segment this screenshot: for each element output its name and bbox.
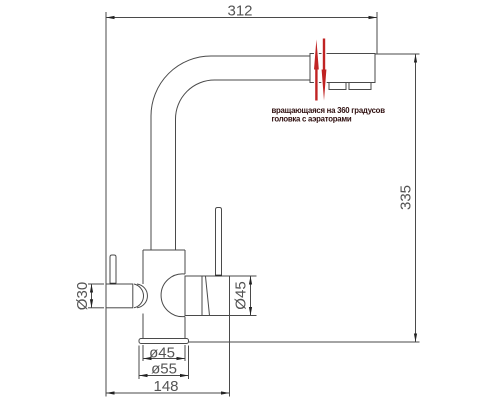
svg-text:312: 312 xyxy=(227,3,252,20)
svg-text:Ø45: Ø45 xyxy=(233,281,250,309)
svg-text:Ø30: Ø30 xyxy=(74,282,91,310)
svg-text:335: 335 xyxy=(398,185,415,210)
svg-text:ø55: ø55 xyxy=(151,361,177,378)
svg-text:головка с аэраторами: головка с аэраторами xyxy=(272,115,352,124)
svg-text:148: 148 xyxy=(153,378,178,395)
svg-text:ø45: ø45 xyxy=(149,344,175,361)
